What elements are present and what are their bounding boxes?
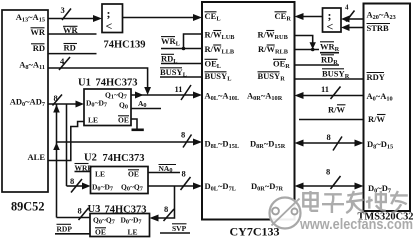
svg-text:74HC139: 74HC139 bbox=[104, 40, 146, 51]
svg-text:LE: LE bbox=[95, 170, 105, 179]
svg-text:74HC373: 74HC373 bbox=[105, 205, 147, 216]
svg-text:U2: U2 bbox=[84, 153, 97, 164]
svg-text:LE: LE bbox=[128, 228, 138, 237]
svg-text:74HC373: 74HC373 bbox=[103, 153, 145, 164]
svg-text:AD0~AD7: AD0~AD7 bbox=[10, 97, 45, 109]
svg-text:8: 8 bbox=[326, 167, 330, 177]
svg-text:OE: OE bbox=[118, 116, 129, 125]
svg-text:4: 4 bbox=[345, 4, 349, 12]
svg-text:3: 3 bbox=[61, 5, 65, 15]
svg-text:WRP: WRP bbox=[75, 164, 93, 173]
svg-text:11: 11 bbox=[321, 84, 329, 94]
svg-text:8: 8 bbox=[70, 176, 74, 186]
svg-text:OE: OE bbox=[95, 228, 106, 237]
svg-text:RDY: RDY bbox=[367, 72, 385, 82]
svg-text:www.elecfans.com: www.elecfans.com bbox=[299, 217, 413, 233]
svg-text:74HC373: 74HC373 bbox=[96, 78, 138, 89]
svg-text:SVP: SVP bbox=[172, 224, 187, 233]
svg-text:D0~D7: D0~D7 bbox=[92, 183, 113, 193]
svg-text:RD: RD bbox=[33, 43, 45, 53]
svg-text:8: 8 bbox=[78, 206, 82, 216]
svg-text:11: 11 bbox=[175, 84, 183, 94]
svg-text:LE: LE bbox=[88, 116, 98, 125]
svg-text:<: < bbox=[327, 20, 334, 34]
svg-text:OE: OE bbox=[128, 170, 139, 179]
svg-text:U3: U3 bbox=[88, 204, 101, 215]
svg-text:WR: WR bbox=[30, 27, 46, 37]
svg-text:RDP: RDP bbox=[57, 225, 73, 234]
svg-text:8: 8 bbox=[182, 169, 186, 179]
svg-text:ALE: ALE bbox=[28, 152, 46, 162]
svg-text:89C52: 89C52 bbox=[11, 200, 44, 214]
svg-text:D0~D7: D0~D7 bbox=[86, 99, 107, 109]
svg-text:STRB: STRB bbox=[367, 23, 390, 33]
svg-text:CY7C133: CY7C133 bbox=[230, 225, 280, 239]
svg-text:8: 8 bbox=[164, 204, 168, 214]
svg-text:<: < bbox=[106, 19, 113, 33]
svg-text:8: 8 bbox=[327, 132, 331, 142]
svg-text:Q1~Q7: Q1~Q7 bbox=[105, 91, 127, 101]
svg-text:8: 8 bbox=[54, 93, 58, 103]
svg-text:R/W: R/W bbox=[328, 105, 346, 115]
svg-text:Q0~Q7: Q0~Q7 bbox=[93, 216, 115, 226]
svg-text:R/W: R/W bbox=[368, 114, 386, 124]
svg-text:8: 8 bbox=[181, 130, 185, 140]
svg-text:Q0~Q7: Q0~Q7 bbox=[121, 183, 143, 193]
svg-text:D0~D7: D0~D7 bbox=[368, 183, 391, 195]
svg-text:U1: U1 bbox=[78, 78, 91, 89]
svg-text:D0~D7: D0~D7 bbox=[121, 216, 142, 226]
